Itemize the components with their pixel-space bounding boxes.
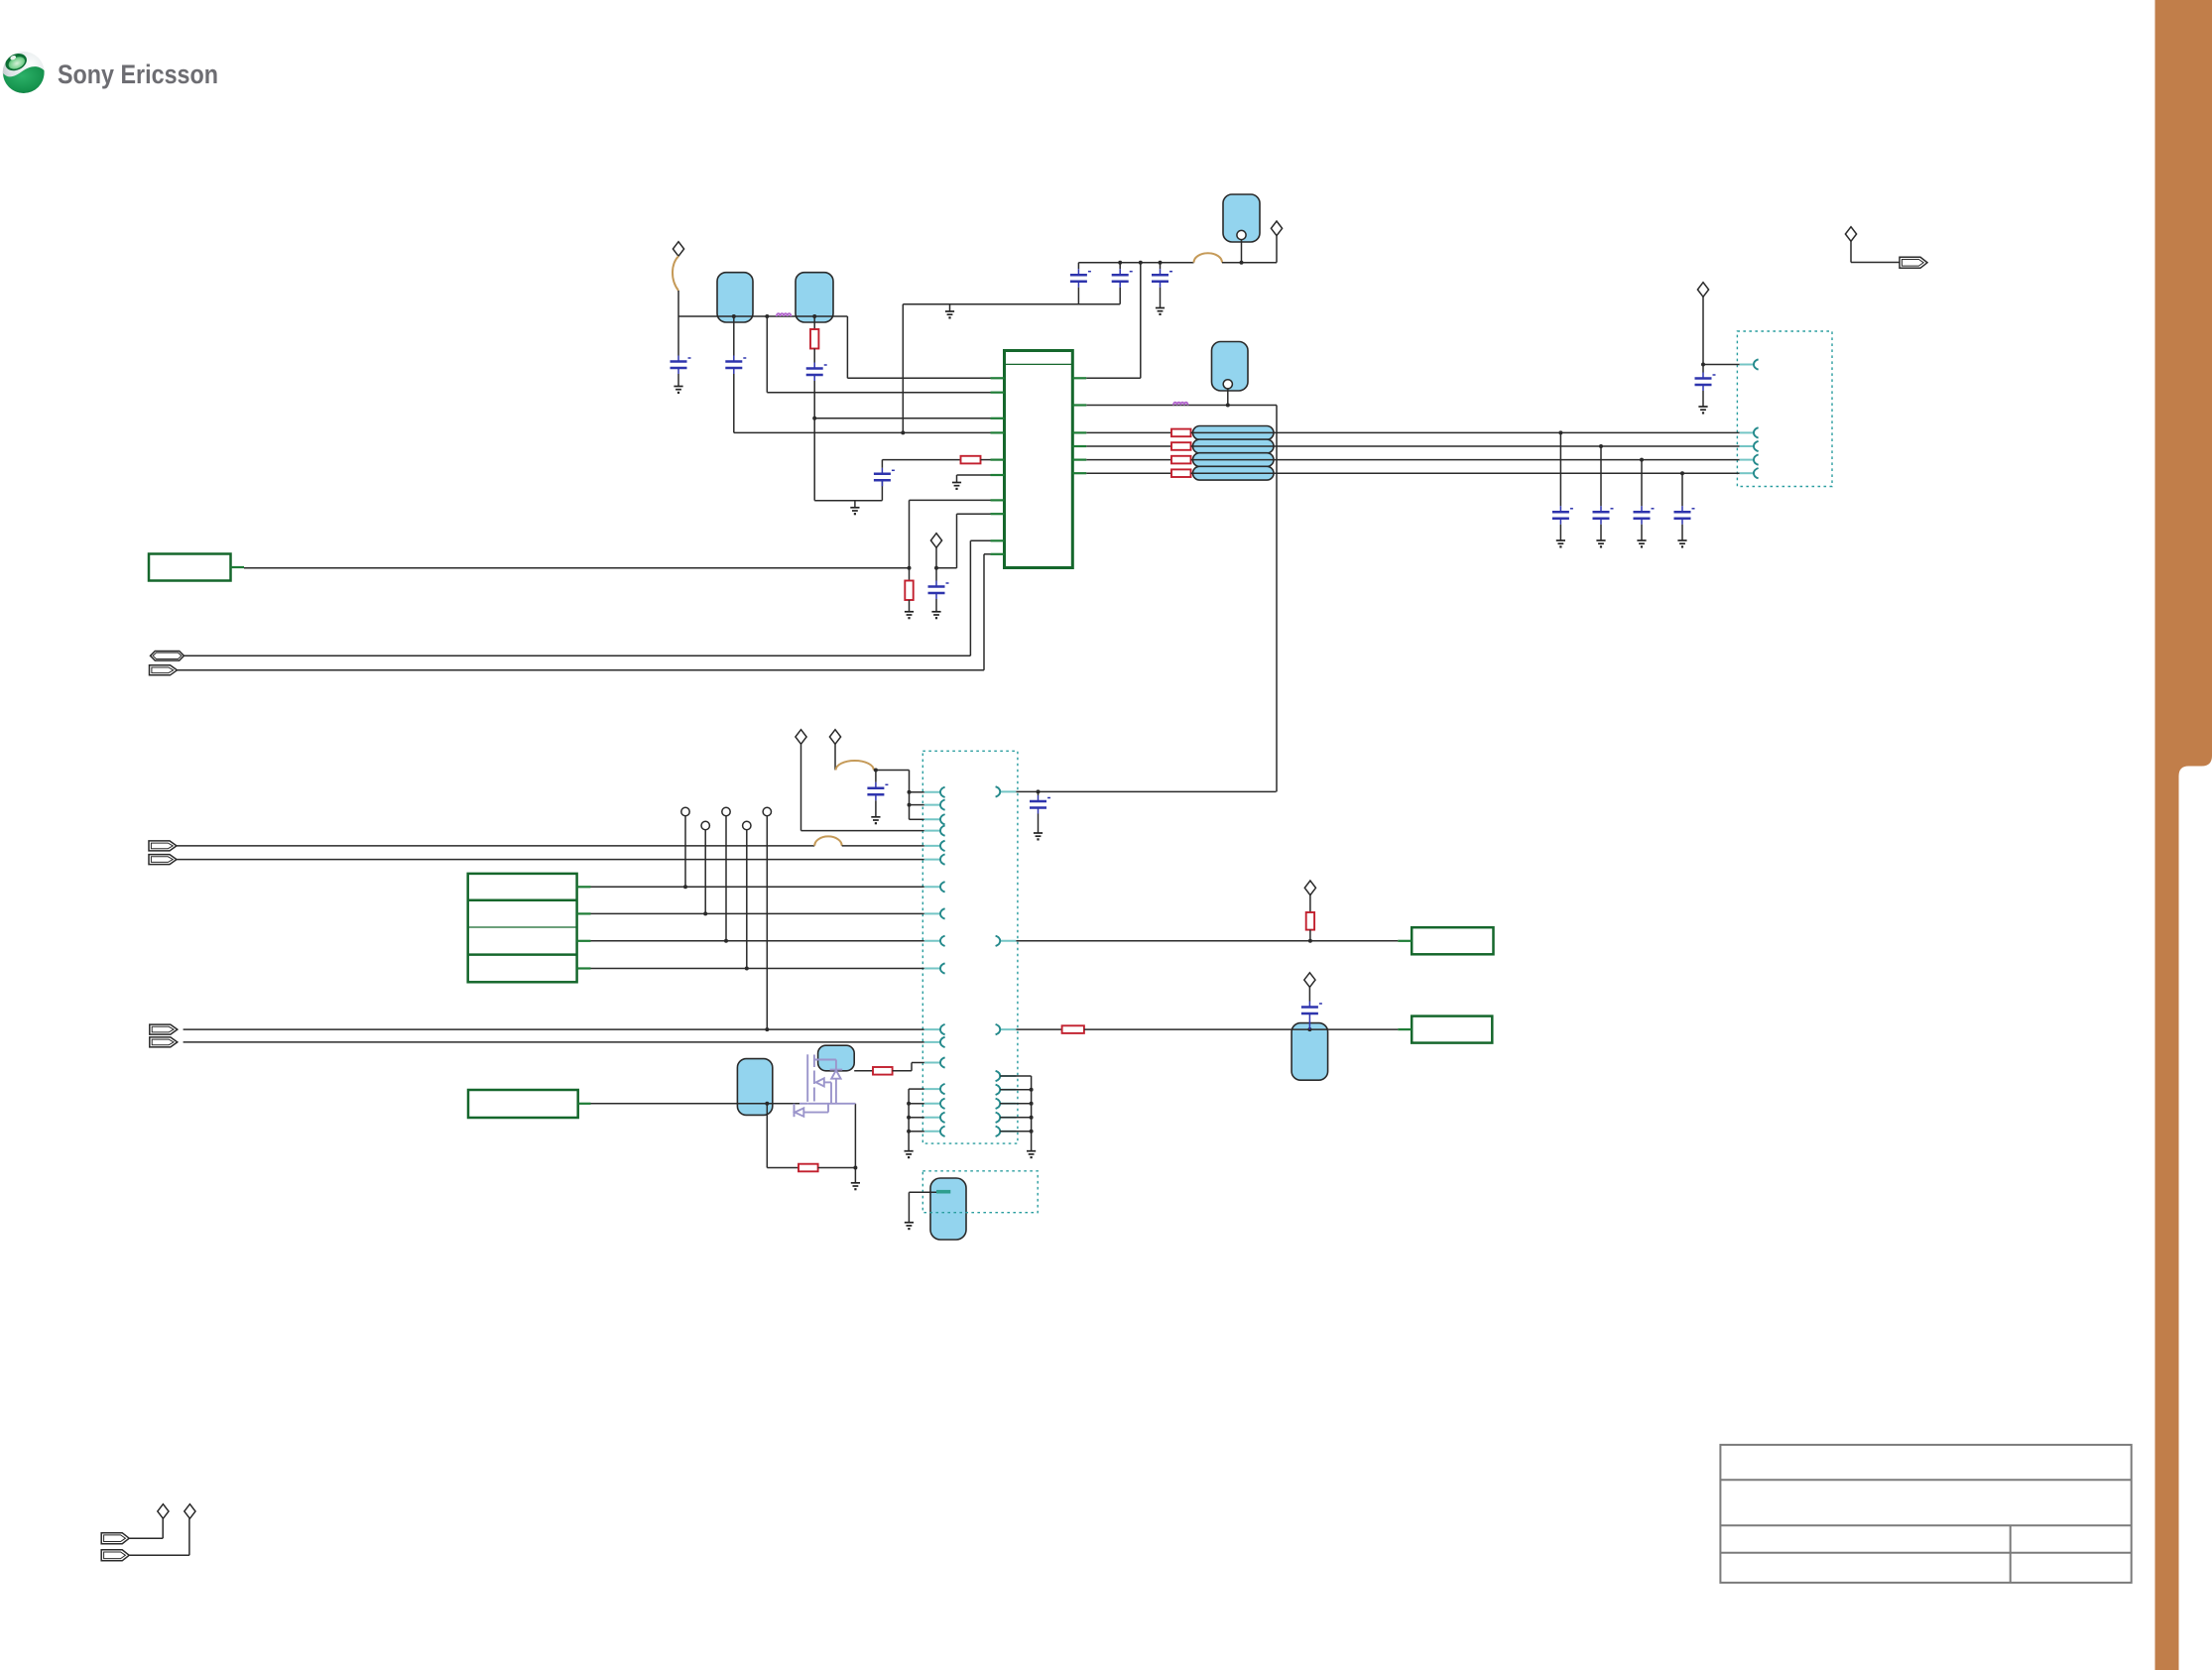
svg-text:Sony Ericsson: Sony Ericsson: [58, 60, 218, 89]
